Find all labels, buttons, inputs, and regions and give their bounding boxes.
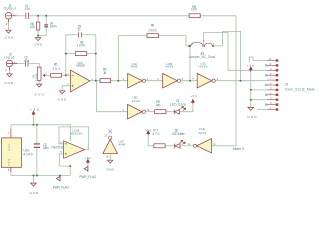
capacitor C2	[25, 60, 28, 66]
svg-text:GND: GND	[247, 115, 257, 119]
wire U2B feedback loop	[59, 127, 89, 150]
svg-text:47n: 47n	[24, 59, 29, 63]
wire R1 bottom to GND	[38, 80, 40, 84]
power +5V at R7	[147, 131, 150, 135]
wire R6 left leg drop	[117, 36, 119, 81]
svg-text:4049: 4049	[132, 99, 140, 103]
ground under R1	[37, 84, 42, 87]
wire ground bottom rail	[11, 172, 70, 176]
inverter U1A	[128, 74, 143, 88]
svg-text:1k2: 1k2	[52, 67, 60, 71]
svg-text:4049: 4049	[131, 65, 138, 69]
wire C3 bottom stub	[36, 148, 38, 176]
capacitor C5	[79, 32, 82, 37]
svg-text:100K: 100K	[148, 28, 158, 32]
wire C2 to R1 top	[29, 64, 39, 68]
wire U2A output to R5	[90, 80, 100, 82]
wire U2A pin3 to GND	[62, 86, 70, 91]
junction U1B out	[189, 80, 191, 82]
wire GND right vertical	[250, 72, 252, 108]
wire C4 bottom to R4 node	[38, 27, 46, 36]
power flag PWR_FLAG2	[84, 166, 88, 171]
svg-text:+5V: +5V	[190, 94, 198, 98]
svg-text:GND: GND	[34, 43, 43, 47]
svg-text:100k: 100k	[34, 73, 38, 81]
wire U1C out to J5 pin7	[215, 80, 267, 82]
power +5V at D1	[192, 100, 195, 104]
svg-text:Output: Output	[4, 7, 16, 11]
wire R6 left	[118, 35, 147, 37]
wire R9 to D1	[166, 111, 174, 113]
junction C3 top	[36, 124, 38, 126]
svg-text:GND: GND	[34, 93, 44, 97]
wire R4 bottom stub	[37, 30, 39, 37]
wire JP1 pin2 route to J5 pin9	[204, 33, 267, 71]
svg-text:1K5: 1K5	[191, 8, 197, 12]
ground under R4/C4	[35, 38, 41, 41]
inverter U1B	[163, 74, 178, 88]
ground under U2A pin3	[60, 91, 65, 94]
wire U1B out to U1C in	[181, 80, 198, 82]
wire D1 to +5V corner	[179, 104, 193, 112]
no-connect J5 pin 10	[265, 64, 267, 66]
capacitor C4	[44, 25, 48, 27]
svg-text:4049: 4049	[23, 152, 32, 156]
jumper JP1	[189, 45, 191, 47]
wire R4 top stub	[37, 16, 39, 22]
wire C3 top stub	[36, 125, 38, 144]
wire +5V stub to R7	[148, 135, 154, 146]
power +5V under U2B	[87, 159, 90, 164]
svg-text:PWR_FLAG: PWR_FLAG	[53, 186, 70, 190]
resistor R8	[189, 14, 200, 18]
no-connect U1F output	[108, 130, 112, 134]
inverter U1F facing up	[103, 139, 118, 153]
svg-text:+5V: +5V	[145, 129, 152, 133]
svg-text:NE5532: NE5532	[52, 146, 64, 150]
junction C3 bottom	[36, 175, 38, 177]
J5 pin 7	[267, 79, 276, 81]
potentiometer R1	[37, 67, 41, 80]
junction R4 top	[37, 15, 39, 17]
svg-text:Conn_01x11_Male: Conn_01x11_Male	[285, 88, 315, 92]
no-connect J5 pin 4	[265, 94, 267, 96]
svg-text:Input: Input	[4, 55, 14, 59]
capacitor C3	[34, 144, 40, 147]
wire U2B pin5 route	[59, 154, 70, 176]
svg-text:LED Meter: LED Meter	[172, 132, 186, 136]
J5 pin 1	[267, 109, 276, 111]
junction PWR_FLAG1 tap	[59, 175, 61, 177]
svg-text:NE5532: NE5532	[76, 64, 85, 68]
junction +5V rail left	[33, 124, 35, 126]
wire GND drop bottom rail	[33, 176, 35, 183]
wire R1 wiper to R2	[45, 74, 51, 76]
svg-text:GND: GND	[4, 81, 13, 85]
svg-text:LED Data: LED Data	[170, 103, 186, 107]
J5 pin 3	[267, 99, 276, 101]
wire feedback right leg	[95, 35, 97, 81]
wire J5 pin3 wire	[251, 99, 267, 101]
svg-text:100n: 100n	[43, 146, 49, 150]
junction GND right pin3	[250, 99, 252, 101]
svg-text:4049: 4049	[118, 142, 125, 146]
connector J1	[5, 13, 12, 20]
wire C5 row left	[66, 34, 78, 36]
wire top rail from C1 to R8	[29, 15, 189, 17]
J5 pin 2	[267, 104, 276, 106]
wire R3 row left	[66, 53, 76, 55]
ground under +5V left rail	[32, 111, 35, 115]
J5 pin 9	[267, 69, 276, 71]
wire R7 to D2	[165, 145, 174, 147]
svg-text:PWR_FLAG: PWR_FLAG	[79, 175, 96, 179]
inverter U1D	[128, 105, 143, 119]
svg-text:R6: R6	[151, 23, 155, 27]
wire +5V U2B to PWR_FLAG2 pole	[87, 164, 89, 172]
LED D2	[175, 144, 180, 149]
svg-text:NE5532: NE5532	[70, 132, 83, 136]
inverter U1E facing left	[197, 139, 212, 153]
svg-text:220: 220	[30, 25, 36, 29]
junction R5 right	[117, 80, 119, 82]
resistor R9	[155, 110, 166, 114]
junction R3 right	[95, 53, 97, 55]
junction U2A pin2 node	[65, 74, 67, 76]
op-amp U2A	[71, 70, 90, 92]
svg-text:4049: 4049	[199, 65, 207, 69]
junction GND bottom rail	[33, 175, 35, 177]
ground right area	[248, 107, 254, 110]
wire J5 pin11 hook to +5V	[249, 57, 267, 63]
junction GND right pin5	[250, 89, 252, 91]
wire C4 top stub	[45, 16, 47, 25]
svg-text:+5V: +5V	[85, 156, 92, 160]
wire U1D input drop	[96, 81, 127, 112]
svg-text:Jumper_NC_Dual: Jumper_NC_Dual	[189, 55, 215, 59]
LED D1	[174, 110, 179, 115]
J5 pin 5	[267, 89, 276, 91]
wire R8 right long drop to meter row	[200, 16, 236, 146]
svg-text:4049: 4049	[166, 65, 174, 69]
capacitor C1	[26, 13, 29, 19]
junction R3 left	[65, 53, 67, 55]
wire J1 pin1 to C1	[17, 15, 26, 17]
resistor R3	[75, 52, 86, 56]
wire J2 pin2 down	[8, 70, 10, 74]
J5 pin 4	[267, 94, 276, 96]
resistor R2	[51, 73, 62, 77]
wire PWR_FLAG1 pole	[59, 176, 61, 182]
wire +5V top rail U1G/C3/U2B	[11, 125, 70, 141]
wire +5V stub left	[33, 115, 35, 125]
junction JP1 pin1	[188, 45, 190, 47]
junction R4/C4 gnd	[37, 35, 39, 37]
J5 pin 10	[267, 64, 276, 66]
svg-text:4049: 4049	[198, 131, 206, 135]
wire R2 to U2A pin2 node	[62, 74, 71, 76]
wire U1D out to R9	[146, 111, 155, 113]
junction U1C out	[240, 80, 242, 82]
power +5V right area	[249, 67, 252, 72]
wire feedback left leg	[65, 35, 67, 76]
svg-text:GND: GND	[58, 97, 67, 101]
junction U2B pin5 corner	[69, 165, 71, 167]
wire R6 right to JP1 pin1	[159, 36, 190, 46]
junction U2A out	[95, 80, 97, 82]
svg-text:Meter 3: Meter 3	[233, 147, 244, 151]
svg-text:GND: GND	[30, 191, 39, 195]
wire U1F input stub	[109, 154, 111, 160]
wire R3 row right	[87, 53, 96, 55]
ground under U1F	[108, 160, 113, 163]
connector J2	[6, 60, 13, 67]
svg-text:+5V: +5V	[30, 108, 40, 112]
wire U1A out to U1B in	[146, 80, 163, 82]
wire J5 pin1 stub	[257, 109, 267, 111]
svg-text:47n: 47n	[25, 7, 30, 11]
svg-text:VSS: VSS	[7, 159, 11, 166]
IC U1G power unit box	[1, 138, 21, 167]
J5 pin 8	[267, 74, 276, 76]
svg-text:J5: J5	[285, 83, 289, 87]
inverter U1C	[197, 74, 212, 88]
resistor R4	[36, 22, 39, 30]
ground under J1	[6, 30, 11, 33]
no-connect J5 pin 6	[265, 84, 267, 86]
svg-text:GND: GND	[5, 36, 14, 40]
no-connect J5 pin 8	[265, 74, 267, 76]
junction C4 top	[45, 15, 47, 17]
svg-text:GND: GND	[106, 167, 114, 171]
svg-text:100K: 100K	[77, 43, 87, 47]
wire J1 pin2 down	[8, 23, 10, 30]
svg-text:1n: 1n	[77, 28, 80, 32]
wire R5 to U1A input	[111, 80, 128, 82]
svg-text:100n: 100n	[50, 25, 57, 29]
resistor R5	[100, 79, 111, 83]
svg-text:+5V: +5V	[247, 64, 255, 68]
wire D2 to U1E bubble	[180, 145, 193, 147]
no-connect J5 pin 2	[265, 104, 267, 106]
wire J5 pin5 wire	[251, 89, 267, 91]
resistor R7	[154, 144, 165, 148]
wire C5 row right	[82, 34, 96, 36]
svg-text:470: 470	[152, 132, 159, 136]
J5 pin 6	[267, 84, 276, 86]
wire J2 pin1 to C2	[17, 63, 25, 65]
ground bottom rail	[31, 183, 37, 186]
svg-text:470: 470	[156, 104, 161, 108]
wire JP1 pin1 drop to U1C input node	[189, 47, 191, 81]
resistor R6	[147, 34, 159, 38]
J5 pin 11	[267, 60, 276, 62]
op-amp U2B	[64, 141, 85, 159]
power flag PWR_FLAG1	[56, 176, 60, 181]
wire U1G pin1 stub	[10, 125, 12, 129]
ground under J2	[7, 74, 12, 77]
wire JP1 pin3 route to U1C out	[214, 32, 240, 81]
svg-text:VCC: VCC	[7, 143, 11, 150]
